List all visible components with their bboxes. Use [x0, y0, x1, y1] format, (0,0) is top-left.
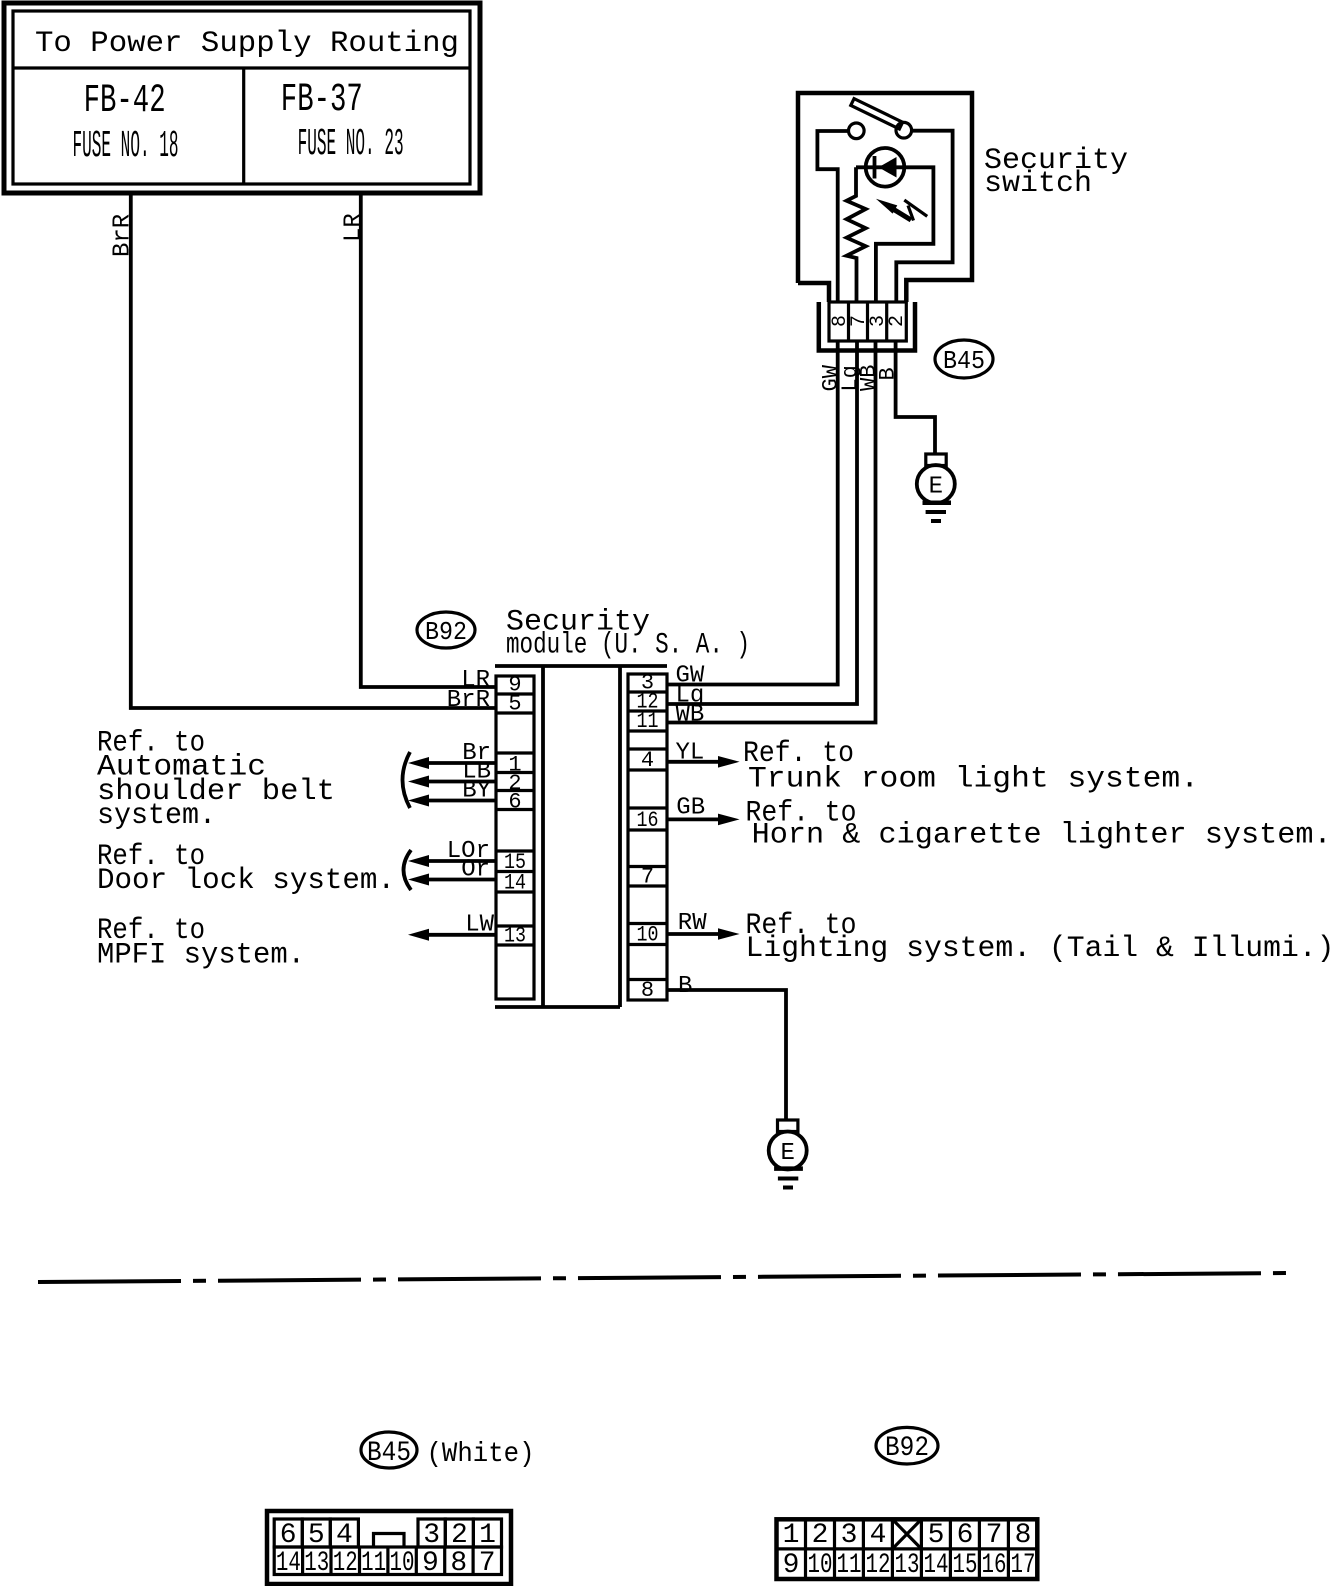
svg-text:15: 15: [953, 1550, 978, 1581]
text ref automatic shoulder belt: [97, 726, 335, 833]
svg-text:13: 13: [895, 1550, 920, 1581]
svg-text:16: 16: [637, 808, 659, 833]
arrow LW pin 13: [408, 929, 495, 941]
label Or: [461, 857, 490, 884]
label YL: [676, 740, 705, 767]
wire WB switch pin3 to module pin 11: [667, 341, 876, 723]
svg-text:FUSE NO. 23: FUSE NO. 23: [298, 123, 404, 166]
arrow BY pin 6: [408, 795, 495, 807]
svg-text:13: 13: [504, 924, 526, 949]
wire BrR from fuse 18 to module pin 5: [131, 193, 495, 708]
arrow GB pin 16: [667, 814, 740, 826]
svg-text:11: 11: [637, 709, 659, 734]
pin 14: [504, 871, 526, 896]
svg-text:RW: RW: [678, 910, 707, 937]
svg-text:LW: LW: [465, 912, 494, 939]
svg-text:Horn & cigarette lighter syste: Horn & cigarette lighter system.: [752, 818, 1332, 852]
svg-text:2: 2: [812, 1520, 829, 1551]
svg-text:8: 8: [450, 1548, 467, 1579]
svg-text:B: B: [876, 367, 901, 380]
svg-text:3: 3: [423, 1520, 440, 1551]
pin 13: [504, 924, 526, 949]
svg-text:5: 5: [928, 1520, 945, 1551]
svg-text:B92: B92: [425, 617, 467, 647]
cell FB-37: [281, 78, 363, 123]
svg-text:7: 7: [479, 1548, 496, 1579]
connector B45 bracket: [819, 302, 915, 351]
svg-text:FB-42: FB-42: [84, 79, 166, 124]
pin 11: [637, 709, 659, 734]
wire B module pin 8 to ground: [667, 990, 786, 1120]
label Br: [462, 740, 491, 767]
svg-text:11: 11: [837, 1550, 862, 1581]
separator dash-dot line: [38, 1273, 1292, 1282]
svg-text:YL: YL: [676, 740, 705, 767]
svg-text:WB: WB: [676, 702, 705, 729]
text ref horn cigarette: [746, 796, 1332, 852]
switch contact left: [849, 123, 865, 139]
text ref lighting: [746, 909, 1335, 966]
connector B45 oval: [935, 340, 993, 378]
B92 pin numbers bottom row: [783, 1550, 1036, 1581]
switch lever: [851, 99, 903, 129]
svg-text:FUSE NO. 18: FUSE NO. 18: [73, 125, 179, 168]
title To Power Supply Routing: [35, 27, 459, 61]
svg-text:9: 9: [422, 1548, 439, 1579]
pin 6: [508, 790, 521, 815]
pin 3: [641, 671, 654, 696]
svg-text:14: 14: [504, 871, 526, 896]
pin 8: [641, 978, 654, 1003]
label B: [678, 973, 692, 1000]
arrow YL pin 4: [667, 756, 740, 768]
paren group 1: [403, 752, 411, 808]
svg-text:17: 17: [1011, 1550, 1036, 1581]
svg-text:7: 7: [641, 865, 654, 890]
module left pin column: [496, 676, 534, 999]
svg-text:14: 14: [276, 1548, 301, 1579]
divider vertical: [242, 68, 245, 184]
svg-text:8: 8: [1015, 1520, 1032, 1551]
svg-text:module (U. S. A. ): module (U. S. A. ): [506, 629, 750, 663]
power supply routing box outer frame: [4, 3, 480, 193]
connector B92 bottom oval: [876, 1427, 938, 1464]
label GW vertical: [819, 364, 844, 391]
svg-text:6: 6: [508, 790, 521, 815]
svg-text:16: 16: [982, 1550, 1007, 1581]
svg-text:5: 5: [508, 692, 521, 717]
svg-text:4: 4: [641, 748, 654, 773]
pin 7 label: [848, 315, 871, 327]
svg-text:6: 6: [957, 1520, 974, 1551]
label WB: [676, 702, 705, 729]
arrow LOr pin 15: [408, 855, 495, 867]
pin 7: [641, 865, 654, 890]
label GW at module pin 3: [676, 663, 705, 690]
svg-text:2: 2: [886, 315, 909, 327]
pin 2: [508, 771, 521, 796]
label LR at pin 9: [461, 667, 490, 694]
label Security module (U.S.A.): [506, 606, 750, 663]
pin 12: [637, 690, 659, 715]
svg-text:2: 2: [451, 1520, 468, 1551]
arrow LB pin 2: [408, 776, 495, 788]
svg-text:13: 13: [304, 1548, 329, 1579]
wire LED branch to pin 3: [856, 167, 933, 302]
svg-text:FB-37: FB-37: [281, 78, 363, 123]
label Lg: [676, 683, 705, 710]
pin 3 label: [867, 315, 890, 327]
label LW: [465, 912, 494, 939]
ground E1: [917, 454, 955, 521]
B45 pin numbers top row: [280, 1520, 496, 1551]
module bottom cap line: [495, 1005, 620, 1009]
svg-text:BrR: BrR: [110, 214, 137, 257]
svg-text:Lighting system. (Tail & Illum: Lighting system. (Tail & Illumi.): [746, 932, 1335, 966]
label Security switch: [984, 144, 1128, 201]
divider horizontal: [13, 66, 470, 69]
arrow RW pin 10: [667, 928, 740, 940]
label B vertical: [876, 367, 901, 380]
label BY: [462, 778, 491, 805]
label LB: [462, 759, 491, 786]
svg-text:4: 4: [870, 1520, 887, 1551]
svg-text:10: 10: [637, 923, 659, 948]
arrow Or pin 14: [408, 874, 495, 886]
LED circle U1: [866, 148, 905, 187]
svg-text:system.: system.: [97, 799, 216, 833]
wire LR from fuse 23 to module pin 9: [361, 193, 495, 687]
wire B switch pin2 to ground: [896, 341, 935, 454]
svg-text:To Power Supply Routing: To Power Supply Routing: [35, 27, 459, 61]
wire right contact to pin 2: [896, 131, 952, 302]
svg-text:14: 14: [924, 1550, 949, 1581]
pin 1: [508, 753, 521, 778]
LED diode symbol: [875, 156, 897, 179]
connector B92 pinout grid: [777, 1519, 1038, 1579]
svg-text:switch: switch: [984, 167, 1092, 201]
pin 16: [637, 808, 659, 833]
wire Lg switch pin7 to module pin 12: [667, 341, 857, 704]
svg-text:E: E: [929, 474, 943, 501]
svg-text:B45: B45: [367, 1438, 411, 1469]
switch contact right: [896, 122, 912, 138]
pin 15: [504, 850, 526, 875]
label LR vertical: [341, 213, 368, 242]
label BrR at pin 5: [447, 687, 490, 714]
svg-text:Or: Or: [461, 857, 490, 884]
svg-text:7: 7: [986, 1520, 1003, 1551]
label BrR vertical: [110, 214, 137, 257]
module central body: [543, 666, 620, 1007]
pin 9: [508, 673, 521, 698]
photo arrow head: [876, 199, 911, 220]
resistor in switch: [847, 167, 866, 302]
module B92 oval: [417, 612, 475, 648]
pin 4: [641, 748, 654, 773]
svg-text:12: 12: [333, 1548, 358, 1579]
B45 pin numbers bottom row: [276, 1548, 496, 1579]
pin 2 label: [886, 315, 909, 327]
svg-text:1: 1: [479, 1520, 496, 1551]
connector B45 bottom oval: [361, 1432, 417, 1469]
svg-text:12: 12: [866, 1550, 891, 1581]
label FUSE NO. 23: [298, 123, 404, 166]
B92 pin numbers top row: [783, 1520, 1032, 1551]
connector B45 pinout outer box: [267, 1511, 511, 1584]
svg-text:Door lock system.: Door lock system.: [97, 864, 395, 898]
photo arrow bolt: [904, 200, 927, 220]
svg-text:BY: BY: [462, 778, 491, 805]
cell FB-42: [84, 79, 166, 124]
svg-text:9: 9: [783, 1550, 800, 1581]
svg-text:E: E: [780, 1140, 794, 1167]
text ref MPFI: [97, 914, 305, 972]
arrow Br pin 1: [408, 757, 495, 769]
ground E2: [769, 1120, 807, 1188]
label LOr: [447, 838, 490, 865]
svg-text:8: 8: [641, 978, 654, 1003]
B92 crossed cell: [892, 1519, 921, 1549]
svg-text:MPFI system.: MPFI system.: [97, 938, 305, 972]
module top cap line: [495, 664, 667, 668]
pin 5: [508, 692, 521, 717]
svg-text:B: B: [678, 973, 692, 1000]
pin 10: [637, 923, 659, 948]
svg-text:GB: GB: [676, 795, 705, 822]
pin 8 label: [829, 315, 852, 327]
module right pin column: [628, 674, 667, 1000]
label FUSE NO. 18: [73, 125, 179, 168]
label WB vertical: [857, 365, 882, 391]
text ref trunk room: [743, 737, 1199, 797]
label Lg vertical: [838, 365, 863, 391]
svg-text:BrR: BrR: [447, 687, 490, 714]
svg-text:4: 4: [336, 1520, 353, 1551]
svg-text:5: 5: [308, 1520, 325, 1551]
power supply routing box inner frame: [13, 11, 470, 184]
svg-text:10: 10: [808, 1550, 833, 1581]
svg-text:10: 10: [390, 1548, 415, 1579]
svg-text:3: 3: [841, 1520, 858, 1551]
security switch outer box: [798, 93, 972, 302]
svg-text:6: 6: [280, 1520, 297, 1551]
wire left contact to pin 8: [817, 131, 849, 302]
svg-text:LR: LR: [341, 213, 368, 242]
svg-text:1: 1: [783, 1520, 800, 1551]
label GB: [676, 795, 705, 822]
svg-text:11: 11: [361, 1548, 386, 1579]
connector B45 pinout grid: [274, 1519, 501, 1575]
svg-text:(White): (White): [427, 1439, 535, 1470]
label RW: [678, 910, 707, 937]
svg-text:Trunk room light system.: Trunk room light system.: [748, 763, 1199, 797]
text ref door lock: [97, 840, 395, 898]
paren group 2: [404, 850, 412, 890]
connector B45 cells: [829, 302, 906, 341]
wire GW switch pin8 to module pin 3: [667, 341, 838, 685]
svg-text:B92: B92: [885, 1433, 929, 1464]
svg-text:B45: B45: [943, 346, 985, 376]
label (White): [427, 1439, 535, 1470]
